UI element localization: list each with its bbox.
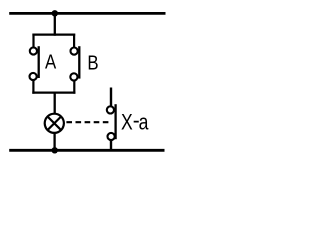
wire: drop to contact A: [32, 34, 34, 47]
contact B (NO contact): [70, 46, 79, 80]
wire: contact X-a to bottom rail: [110, 140, 112, 150]
label X-a: [121, 108, 149, 135]
wire: lamp to bottom rail: [53, 133, 55, 151]
bottom supply rail: [9, 149, 164, 152]
contact X-a (NO contact): [107, 104, 116, 140]
junction dot (top rail): [52, 10, 58, 16]
wire: drop to contact B: [73, 34, 75, 47]
svg-text:A: A: [45, 50, 57, 73]
contact A (NO contact): [29, 46, 38, 80]
wire: top branch bar: [32, 33, 75, 35]
wire: top rail down to parallel branch: [54, 13, 56, 35]
lamp / relay X: [45, 114, 64, 133]
wire: riser below contact A: [32, 80, 34, 94]
top supply rail: [9, 12, 165, 15]
svg-text:X: X: [121, 111, 133, 135]
wire: stub above contact X-a: [110, 88, 112, 107]
wire: branch to lamp: [54, 92, 56, 114]
dashed mechanical link lamp to contact X-a: [66, 121, 109, 123]
junction dot (bottom rail): [52, 147, 58, 153]
svg-text:B: B: [87, 51, 98, 74]
wire: bottom branch bar: [32, 91, 75, 93]
svg-text:a: a: [139, 111, 150, 135]
wire: riser below contact B: [73, 80, 75, 93]
